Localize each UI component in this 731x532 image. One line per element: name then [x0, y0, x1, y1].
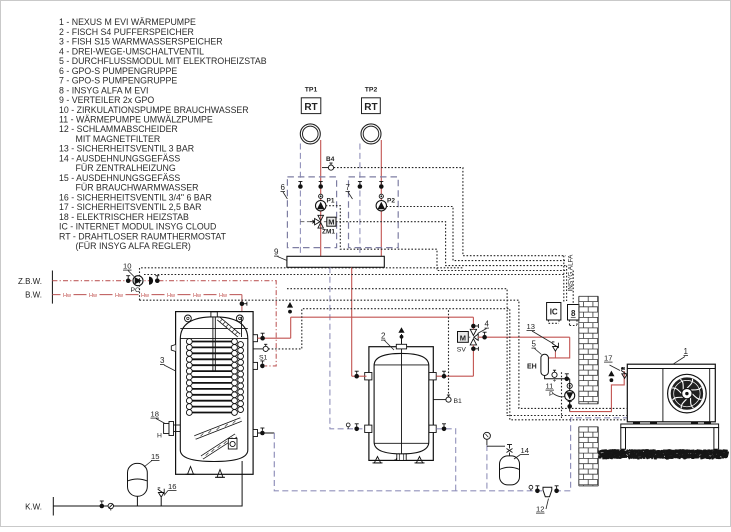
tank 3 body [180, 317, 248, 462]
pump P1 [316, 201, 326, 211]
svg-text:18: 18 [151, 410, 159, 419]
svg-text:5: 5 [532, 340, 537, 349]
wire supply circuit 2 [380, 140, 382, 256]
wire module supply loop [548, 337, 569, 358]
wire return from distributor [330, 267, 367, 429]
wire KW cold water [53, 461, 242, 506]
wire elec bundle to controller [563, 256, 565, 303]
svg-text:2: 2 [381, 332, 386, 341]
wire elec mid to heat pump B [287, 289, 627, 416]
check valve ZBW [149, 277, 153, 285]
svg-text:Z.B.W.: Z.B.W. [18, 277, 42, 286]
ball valve sep left [535, 489, 540, 494]
svg-text:RT: RT [304, 102, 317, 113]
wire elec ZM1 [336, 222, 566, 266]
tank 3 anode rod [212, 317, 214, 372]
svg-text:12: 12 [536, 505, 544, 514]
wire ZBW circulation [52, 281, 276, 366]
wall [579, 296, 599, 486]
svg-text:B.W.: B.W. [25, 291, 42, 300]
valve 4 three way [457, 329, 478, 353]
wire elec long mid [144, 274, 566, 276]
wire supply tank2 left [352, 375, 367, 377]
ball valve KW [100, 504, 105, 509]
svg-text:14: 14 [521, 446, 529, 455]
pressure gauge [483, 432, 490, 439]
heating circuit loop 1 [300, 124, 320, 144]
svg-text:RT: RT [364, 102, 377, 113]
svg-text:SV: SV [457, 347, 467, 354]
separator 12 [543, 487, 552, 497]
circulation pump 10 PC [133, 276, 143, 286]
safety valve 13 [554, 352, 556, 358]
wire elec P2 [386, 207, 565, 261]
expansion vessel 15 [128, 463, 148, 496]
distributor 9 [287, 256, 384, 267]
ball valve ZBW right2 [155, 278, 160, 283]
air vent outdoor [608, 371, 614, 377]
svg-text:Hw: Hw [115, 293, 124, 299]
tank 2 legs [374, 457, 380, 463]
svg-text:10: 10 [123, 262, 131, 271]
svg-text:P1: P1 [327, 198, 335, 205]
svg-text:11: 11 [546, 382, 554, 391]
svg-text:P2: P2 [387, 198, 395, 205]
check valve group7 [379, 194, 383, 198]
vent separator [529, 485, 533, 489]
sensor B1 [433, 399, 446, 401]
tank 3 top fitting [211, 312, 217, 317]
svg-text:IC: IC [550, 308, 558, 317]
tank 3 coil [186, 339, 243, 416]
tank 3 coil return port [253, 430, 257, 437]
expansion vessel 14 [500, 456, 520, 485]
safety valve 16 [160, 498, 162, 507]
check valve module [567, 383, 572, 388]
svg-text:P: P [549, 391, 554, 398]
tank 3 left port [171, 345, 175, 352]
wire return bottom [274, 418, 627, 491]
thermostat TP2 [362, 87, 381, 114]
wire elec to heat pump A [140, 300, 627, 408]
svg-text:M: M [460, 333, 466, 342]
wire valve4 bottom port [472, 345, 474, 376]
wire elec B4 [334, 168, 566, 256]
vent tank2 lower left [346, 423, 350, 427]
ball valve BW [240, 301, 245, 306]
wire return circuit 2 [359, 144, 361, 257]
pump P2 [376, 201, 386, 211]
pump group 7 box [349, 177, 399, 248]
tank 3 legs [188, 467, 194, 475]
svg-text:M: M [328, 218, 334, 227]
fan [668, 374, 707, 413]
ball valve group7 return [358, 184, 363, 189]
sensor S1 [253, 348, 263, 350]
svg-text:Hw: Hw [89, 293, 98, 299]
flow module 5 EH capsule [541, 354, 549, 375]
wire left tick [51, 271, 53, 304]
svg-text:9: 9 [274, 248, 279, 257]
svg-text:6: 6 [281, 183, 286, 192]
svg-text:Hw: Hw [219, 293, 228, 299]
heat pump stand [621, 424, 719, 449]
wire return tank2 right [436, 429, 455, 491]
svg-text:K.W.: K.W. [25, 502, 42, 511]
pump group 6 box [287, 177, 336, 248]
svg-text:PC: PC [131, 287, 141, 294]
ball valve group7 supply [379, 184, 384, 189]
controller IC box [547, 303, 561, 321]
tank 3 drain box [228, 439, 237, 450]
tank 3 lower tubes [195, 420, 241, 438]
check valve group6 [319, 194, 323, 198]
air vent on supply riser [290, 317, 292, 338]
wire elec S1 [268, 309, 626, 420]
pump 11 P [569, 379, 571, 412]
mixing valve ZM1 [300, 215, 336, 235]
ball valve group6 supply [318, 184, 323, 189]
svg-text:3: 3 [160, 356, 165, 365]
svg-text:TP2: TP2 [365, 87, 378, 94]
wire module lower [545, 376, 570, 379]
wire supply to buffer tank [351, 267, 353, 376]
tank 3 frame [176, 312, 254, 475]
sensor B4 [322, 156, 335, 170]
wire elec P1 [326, 206, 566, 271]
heat pump feet [633, 422, 640, 424]
ball valve ZBW left [126, 278, 131, 283]
svg-text:1: 1 [684, 347, 689, 356]
tank 3 inlet tube diagonal [219, 319, 240, 336]
svg-text:17: 17 [604, 354, 612, 363]
wire elec B1 [448, 309, 450, 397]
wire supply to valve 4 [291, 316, 474, 318]
controller 8 box [568, 305, 580, 321]
svg-text:Hw: Hw [167, 293, 176, 299]
svg-text:ZM1: ZM1 [322, 229, 335, 236]
svg-text:13: 13 [527, 322, 535, 331]
tank 3 supply port top [253, 335, 257, 342]
tank 2 body [374, 353, 429, 454]
heat pump 1 [627, 364, 715, 422]
svg-text:B4: B4 [326, 156, 335, 163]
svg-text:Hw: Hw [63, 293, 72, 299]
svg-text:8: 8 [571, 309, 576, 318]
svg-text:4: 4 [485, 320, 490, 329]
vessel 14 connection [487, 445, 505, 447]
wire supply tank2 right to valve4 [436, 375, 473, 377]
svg-text:EH: EH [527, 364, 537, 371]
svg-text:INSYG ALFA: INSYG ALFA [568, 254, 575, 292]
svg-text:16: 16 [168, 482, 176, 491]
safety valve 17 [622, 374, 628, 379]
check valve KW [108, 503, 113, 508]
wire supply circuit 1 [320, 140, 322, 256]
wire return circuit 1 [299, 144, 301, 257]
tank 3 ZBW port [253, 362, 257, 369]
wire elec under boxes [549, 320, 560, 323]
wire elec pump11 [561, 372, 563, 418]
air vent tank 2 [401, 334, 403, 344]
tank 3 internal dip tube [241, 317, 243, 337]
wire valve4 top port [472, 317, 474, 329]
tank 2 top fitting [396, 344, 406, 349]
ball valve sep right [554, 489, 559, 494]
flow switch [552, 372, 557, 377]
ground [598, 449, 729, 459]
wire elec PC [140, 268, 463, 300]
wire supply to heat pump [570, 371, 625, 412]
svg-text:15: 15 [151, 452, 159, 461]
thermostat TP1 [301, 87, 321, 114]
svg-text:B1: B1 [454, 398, 463, 405]
svg-text:7: 7 [346, 183, 351, 192]
svg-text:TP1: TP1 [305, 87, 318, 94]
tank 2 ports [365, 373, 372, 380]
svg-text:Hw: Hw [193, 293, 202, 299]
svg-text:Hw: Hw [141, 293, 150, 299]
tank 2 bottom fitting [397, 454, 406, 461]
tank 2 frame [369, 347, 433, 461]
tank 3 dome flanges [185, 315, 244, 322]
svg-text:H: H [157, 433, 162, 440]
heater 18 [157, 422, 180, 440]
heating circuit loop 2 [361, 124, 381, 144]
wire valve4 right port [478, 336, 570, 338]
ball valve group6 return [298, 184, 303, 189]
wire BW hot water [52, 294, 60, 296]
